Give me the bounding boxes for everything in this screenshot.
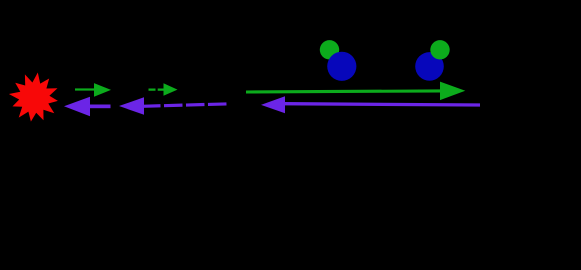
long green forward arrow (solid) [246,82,465,101]
purple reverse arrow 1 (solid, large head) [64,97,111,116]
molecule 2: green atom [430,40,449,59]
starburst (red explosion) [9,73,58,122]
green forward arrow 2 (dashed, short) [149,83,178,95]
purple reverse arrow 2 (dashed tail) [119,97,227,115]
long purple reverse arrow (solid) [261,96,480,113]
molecule 1: blue atom [327,52,356,81]
molecule 1: green atom [320,40,339,59]
green forward arrow 1 (solid, short) [75,83,111,97]
molecule 2: blue atom [415,52,444,81]
